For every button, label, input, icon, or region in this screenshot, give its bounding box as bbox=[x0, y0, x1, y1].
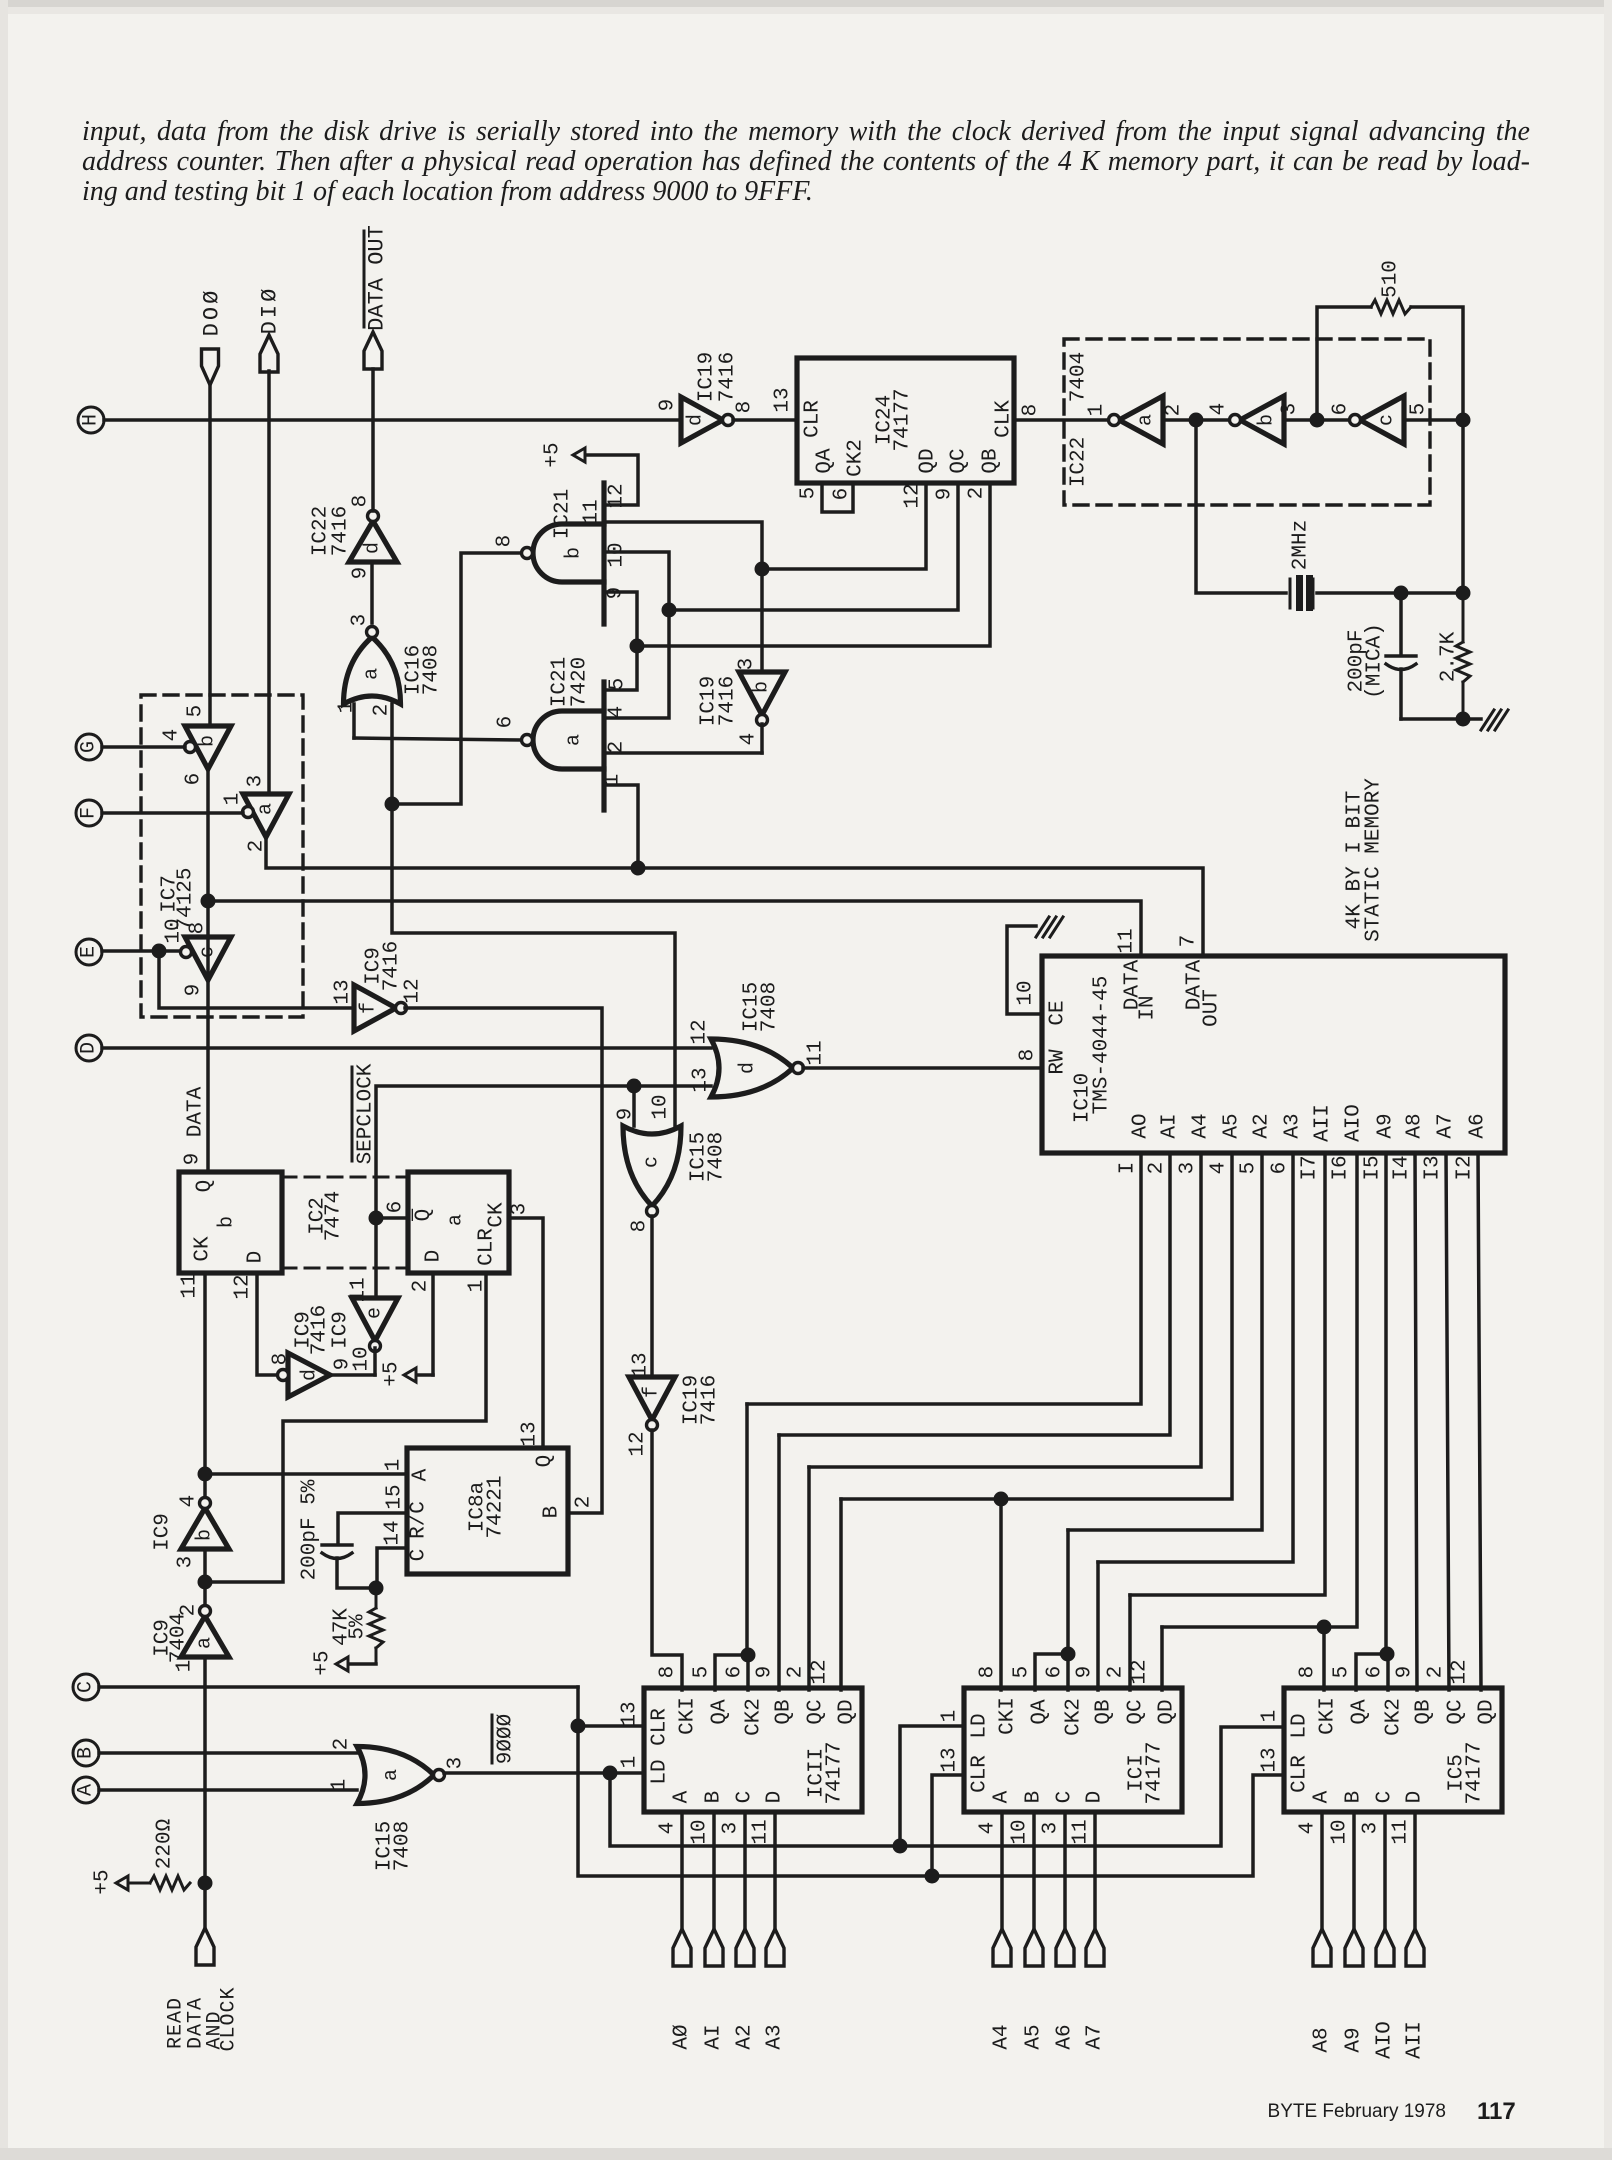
svg-text:D: D bbox=[78, 1042, 101, 1054]
wire to IC1 CK1 bbox=[999, 1499, 1003, 1690]
svg-text:9: 9 bbox=[1074, 1666, 1097, 1679]
svg-text:C: C bbox=[734, 1791, 757, 1804]
wire IC19f.12 to IC11.CK1 bbox=[652, 1430, 682, 1690]
gate IC21b 7420 bbox=[533, 524, 604, 582]
svg-text:3: 3 bbox=[1040, 1822, 1063, 1835]
svg-text:a: a bbox=[380, 1769, 403, 1781]
svg-text:IN: IN bbox=[1137, 995, 1160, 1020]
svg-text:AII: AII bbox=[1312, 1104, 1335, 1142]
svg-text:QB: QB bbox=[980, 448, 1003, 473]
svg-text:RW: RW bbox=[1047, 1049, 1070, 1075]
svg-text:A: A bbox=[1311, 1790, 1334, 1803]
enable bubble IC7b bbox=[185, 742, 196, 753]
strap IC5 QA-CK2 bbox=[1356, 1654, 1388, 1690]
svg-text:13: 13 bbox=[619, 1701, 642, 1726]
svg-text:IC9: IC9 bbox=[330, 1311, 353, 1349]
wire IC22d.8 to DATA OUT bbox=[371, 369, 375, 511]
svg-text:10: 10 bbox=[606, 542, 629, 567]
wire ICI B to connector bbox=[1032, 1812, 1036, 1929]
connector READ DATA AND CLOCK bbox=[196, 1928, 214, 1965]
inverter IC19b bbox=[739, 672, 785, 715]
svg-text:3: 3 bbox=[1360, 1822, 1383, 1835]
svg-text:2: 2 bbox=[331, 1738, 354, 1751]
wire 47K to +5 bbox=[347, 1662, 376, 1666]
svg-text:11: 11 bbox=[1070, 1819, 1093, 1844]
svg-text:AØ: AØ bbox=[671, 2024, 694, 2049]
svg-text:QC: QC bbox=[805, 1699, 828, 1724]
svg-text:CK2: CK2 bbox=[743, 1698, 766, 1736]
enable bubble IC7a bbox=[243, 807, 254, 818]
wire ICII C to connector bbox=[743, 1812, 747, 1929]
bus rail 8 bbox=[1162, 1153, 1357, 1627]
wire ICI C to connector bbox=[1063, 1812, 1067, 1929]
wire IC21b.12 to +5 bbox=[585, 455, 638, 505]
svg-text:SEPCLOCK: SEPCLOCK bbox=[355, 1063, 378, 1164]
svg-text:1: 1 bbox=[619, 1756, 642, 1769]
connector address ICII B bbox=[705, 1929, 723, 1966]
svg-text:3: 3 bbox=[245, 775, 268, 788]
svg-text:2: 2 bbox=[1146, 1162, 1169, 1175]
connector E bbox=[76, 939, 102, 965]
wire IC24 CLK to IC22a bbox=[1014, 418, 1107, 422]
junction ground rail bbox=[1456, 712, 1471, 727]
svg-text:13: 13 bbox=[690, 1067, 713, 1092]
svg-text:4: 4 bbox=[178, 1495, 201, 1508]
inverter IC9b bbox=[181, 1508, 229, 1549]
+5 arrow 47K bbox=[336, 1657, 348, 1671]
buffer IC7a 74125 bbox=[243, 794, 289, 837]
svg-text:1: 1 bbox=[222, 793, 245, 806]
wire D to IC15d.12 bbox=[102, 1046, 711, 1050]
svg-text:f: f bbox=[358, 1002, 381, 1014]
svg-text:CLR: CLR bbox=[1289, 1755, 1312, 1793]
wire CK to IC8a.A bbox=[204, 1472, 407, 1476]
wire 510 to osc node C bbox=[1411, 307, 1463, 420]
svg-text:9: 9 bbox=[934, 488, 957, 501]
wire to IC2a.6 bbox=[376, 1216, 408, 1220]
connector address ICI B bbox=[1025, 1929, 1043, 1966]
svg-text:510: 510 bbox=[1380, 260, 1403, 298]
inverter IC19f bbox=[629, 1377, 675, 1420]
junction osc node A bbox=[1189, 413, 1204, 428]
wire IC5 A to connector bbox=[1320, 1812, 1324, 1929]
svg-text:C: C bbox=[1374, 1791, 1397, 1804]
riser IC1 QC bbox=[1128, 1595, 1132, 1690]
wire 200pF to ground rail bbox=[1399, 669, 1403, 719]
svg-text:IC21: IC21 bbox=[552, 489, 575, 539]
svg-text:CK2: CK2 bbox=[845, 439, 868, 477]
wire IC21b.8 to junction bbox=[392, 553, 521, 804]
wire F to IC7a enable bbox=[102, 811, 243, 815]
riser IC5 QC to A7 bbox=[1446, 1153, 1449, 1690]
svg-text:D: D bbox=[1404, 1791, 1427, 1804]
buffer IC7c 74125 bbox=[185, 937, 231, 980]
svg-text:QB: QB bbox=[1413, 1699, 1436, 1724]
svg-text:12: 12 bbox=[232, 1274, 255, 1299]
svg-text:7408: 7408 bbox=[421, 645, 444, 695]
svg-text:CKI: CKI bbox=[677, 1697, 700, 1735]
wire SEPCLOCK to IC15d.13 and IC9e.11 bbox=[376, 1086, 711, 1298]
inverter IC9f bbox=[354, 985, 396, 1031]
svg-text:8: 8 bbox=[494, 535, 517, 548]
svg-text:CLOCK: CLOCK bbox=[218, 1986, 241, 2051]
ground symbol CE bbox=[1036, 917, 1049, 937]
footer BYTE February 1978 bbox=[1200, 2101, 1446, 2123]
connector D bbox=[76, 1035, 102, 1061]
wire IC9e.10 down bbox=[373, 1348, 377, 1375]
svg-text:G: G bbox=[78, 741, 101, 753]
connector address IC5 D bbox=[1406, 1929, 1424, 1966]
bus rail 2 bbox=[779, 1153, 1170, 1435]
resistor 510 bbox=[1371, 300, 1411, 314]
svg-text:12: 12 bbox=[1129, 1659, 1152, 1684]
svg-text:AIO: AIO bbox=[1343, 1104, 1366, 1142]
junction SEPCLOCK-IC15c bbox=[627, 1079, 642, 1094]
svg-text:H: H bbox=[80, 414, 103, 426]
riser IC5 QD to A6 bbox=[1478, 1153, 1481, 1690]
svg-text:11: 11 bbox=[750, 1819, 773, 1844]
inverter IC22c bbox=[1360, 396, 1404, 444]
svg-text:QA: QA bbox=[709, 1699, 732, 1725]
strap IC1 QA-CK2 bbox=[1035, 1654, 1068, 1690]
svg-text:2: 2 bbox=[1163, 404, 1186, 417]
caption paragraph line 2 bbox=[82, 146, 1530, 178]
svg-text:I: I bbox=[1117, 1162, 1140, 1175]
svg-text:A: A bbox=[991, 1790, 1014, 1803]
svg-text:Q: Q bbox=[194, 1180, 217, 1193]
dashed link IC2 bbox=[282, 1176, 408, 1179]
svg-text:5: 5 bbox=[185, 705, 208, 718]
junction data out to IC21a.1 bbox=[631, 861, 646, 876]
svg-text:6: 6 bbox=[385, 1201, 408, 1214]
wire CLR rail to IC5.CLR bbox=[578, 1687, 1284, 1876]
svg-text:CK2: CK2 bbox=[1383, 1698, 1406, 1736]
svg-text:5: 5 bbox=[691, 1666, 714, 1679]
svg-text:A7: A7 bbox=[1435, 1113, 1458, 1138]
wire 220 to +5 bbox=[128, 1882, 150, 1885]
svg-text:3: 3 bbox=[175, 1556, 198, 1569]
svg-text:D: D bbox=[245, 1251, 268, 1264]
junction CLR IC11 bbox=[571, 1719, 586, 1734]
svg-text:7: 7 bbox=[1178, 935, 1201, 948]
svg-text:7416: 7416 bbox=[699, 1375, 722, 1425]
wire G to IC7b enable bbox=[102, 745, 185, 749]
connector address IC5 B bbox=[1345, 1929, 1363, 1966]
svg-text:Q̅: Q̅ bbox=[412, 1208, 436, 1222]
connector DATA OUT bbox=[364, 332, 382, 369]
svg-text:11: 11 bbox=[1390, 1819, 1413, 1844]
svg-text:+5: +5 bbox=[312, 1650, 335, 1675]
svg-text:B: B bbox=[541, 1506, 564, 1519]
junction QB net bbox=[630, 639, 645, 654]
junction crystal-cap bbox=[1394, 586, 1409, 601]
svg-text:A9: A9 bbox=[1375, 1113, 1398, 1138]
svg-text:9ØØØ: 9ØØØ bbox=[495, 1714, 518, 1764]
junction osc node C bbox=[1456, 413, 1471, 428]
wire IC5 C to connector bbox=[1383, 1812, 1387, 1929]
svg-text:a: a bbox=[194, 1637, 217, 1649]
svg-text:DATA: DATA bbox=[185, 1086, 208, 1137]
svg-text:1: 1 bbox=[383, 1459, 406, 1472]
wire IC16a.3 to IC22d.9 bbox=[370, 562, 374, 623]
wire to ground bbox=[1463, 717, 1481, 721]
connector DI0 bbox=[260, 335, 278, 372]
svg-text:A3: A3 bbox=[1282, 1113, 1305, 1138]
inverter IC9d bbox=[288, 1353, 330, 1397]
IC24 QA-CK2 strap bbox=[822, 483, 853, 512]
svg-text:b: b bbox=[1256, 414, 1279, 426]
svg-text:A4: A4 bbox=[1190, 1113, 1213, 1138]
svg-text:74177: 74177 bbox=[1464, 1741, 1487, 1804]
wire osc node C down bbox=[1461, 420, 1465, 593]
wire to 200pF MICA bbox=[1399, 593, 1403, 655]
svg-text:8: 8 bbox=[270, 1353, 293, 1366]
svg-text:13: 13 bbox=[332, 979, 355, 1004]
wire IC19b.4 out bbox=[760, 724, 764, 753]
riser IC1 QA node bbox=[1066, 1530, 1070, 1654]
bus rail 6 bbox=[1098, 1153, 1293, 1562]
strap IC11 QA-CK2 bbox=[715, 1655, 748, 1690]
connector address ICII A bbox=[673, 1929, 691, 1966]
svg-text:QC: QC bbox=[948, 448, 971, 473]
gate IC21a 7420 bbox=[533, 711, 604, 769]
svg-text:A6: A6 bbox=[1467, 1113, 1490, 1138]
svg-text:10: 10 bbox=[1015, 980, 1038, 1005]
svg-text:6: 6 bbox=[1269, 1162, 1292, 1175]
svg-text:3: 3 bbox=[349, 614, 372, 627]
svg-text:CK2: CK2 bbox=[1063, 1698, 1086, 1736]
svg-text:7416: 7416 bbox=[330, 506, 353, 556]
ground symbol oscillator bbox=[1481, 710, 1494, 730]
svg-text:A4: A4 bbox=[991, 2024, 1014, 2049]
svg-text:b: b bbox=[216, 1216, 239, 1228]
svg-text:CLR: CLR bbox=[969, 1755, 992, 1793]
resistor 47K 5% bbox=[375, 1588, 378, 1608]
svg-text:A: A bbox=[75, 1784, 98, 1796]
svg-text:QC: QC bbox=[1445, 1699, 1468, 1724]
riser IC5 QA node to A9 bbox=[1384, 1153, 1388, 1654]
svg-text:C: C bbox=[1054, 1791, 1077, 1804]
svg-text:AI: AI bbox=[703, 2024, 726, 2049]
svg-text:DOØ: DOØ bbox=[200, 288, 225, 337]
gate IC15d 7408 bbox=[711, 1039, 793, 1097]
memory IC10 TMS-4044-45 bbox=[1042, 956, 1505, 1153]
svg-text:8: 8 bbox=[1020, 404, 1043, 417]
svg-text:11: 11 bbox=[805, 1040, 828, 1065]
svg-text:B: B bbox=[1023, 1791, 1046, 1804]
svg-text:14: 14 bbox=[382, 1520, 405, 1545]
wire IC5 B to connector bbox=[1352, 1812, 1356, 1929]
wire LD to IC1 bbox=[900, 1726, 964, 1846]
svg-text:3: 3 bbox=[1177, 1162, 1200, 1175]
wire IC22c out bbox=[1404, 418, 1463, 422]
svg-text:a: a bbox=[255, 803, 278, 815]
wire IC2b.11 down bbox=[203, 1273, 207, 1498]
input bar IC21b bbox=[601, 483, 606, 624]
wire CLR to IC11 bbox=[578, 1724, 644, 1728]
connector address ICII C bbox=[736, 1929, 754, 1966]
svg-text:9: 9 bbox=[350, 567, 373, 580]
svg-text:+5: +5 bbox=[92, 1869, 115, 1894]
svg-text:6: 6 bbox=[1364, 1666, 1387, 1679]
counter IC5 74177 bbox=[1284, 1688, 1502, 1812]
svg-text:IC19: IC19 bbox=[696, 352, 719, 402]
right scan edge band bbox=[1604, 0, 1612, 2160]
wire IC10 CE to ground bbox=[1007, 926, 1042, 1014]
bus rail 3 bbox=[809, 1153, 1201, 1467]
svg-text:D: D bbox=[1084, 1791, 1107, 1804]
svg-text:DIØ: DIØ bbox=[258, 286, 283, 335]
svg-text:6: 6 bbox=[1044, 1666, 1067, 1679]
junction SEPCLOCK-IC2a.6 bbox=[369, 1211, 384, 1226]
wire IC16a.2 to IC15c.10 bbox=[392, 704, 675, 1126]
svg-text:QA: QA bbox=[814, 448, 837, 474]
riser IC11 QD bbox=[839, 1499, 843, 1690]
svg-text:CK: CK bbox=[192, 1236, 215, 1262]
svg-text:I3: I3 bbox=[1422, 1155, 1445, 1180]
svg-text:QD: QD bbox=[917, 448, 940, 473]
svg-text:1: 1 bbox=[1086, 404, 1109, 417]
wire ICII B to connector bbox=[712, 1812, 716, 1929]
svg-text:LD: LD bbox=[969, 1713, 992, 1738]
svg-text:7420: 7420 bbox=[569, 657, 592, 707]
svg-text:QA: QA bbox=[1349, 1699, 1372, 1725]
gate IC15a 7408 bbox=[357, 1747, 434, 1804]
dashed box IC7 74125 bbox=[141, 695, 303, 1017]
wire IC16a.1 stub bbox=[352, 704, 356, 738]
wire ICII A to connector bbox=[680, 1812, 684, 1929]
svg-text:QC: QC bbox=[1125, 1699, 1148, 1724]
svg-text:C: C bbox=[75, 1681, 98, 1693]
junction LD rail IC1 bbox=[893, 1839, 908, 1854]
svg-text:2: 2 bbox=[966, 487, 989, 500]
svg-text:7408: 7408 bbox=[759, 982, 782, 1032]
svg-text:a: a bbox=[445, 1214, 468, 1226]
svg-text:5: 5 bbox=[1331, 1666, 1354, 1679]
overline of DATA OUT bbox=[363, 231, 366, 327]
svg-text:2: 2 bbox=[785, 1666, 808, 1679]
flip-flop IC2a 7474 bbox=[408, 1172, 509, 1273]
junction IC11 QA-CK2 bbox=[741, 1648, 756, 1663]
connector address ICI A bbox=[993, 1929, 1011, 1966]
connector A bbox=[73, 1777, 99, 1803]
top scan edge band bbox=[0, 0, 1612, 7]
svg-text:12: 12 bbox=[689, 1019, 712, 1044]
svg-text:11: 11 bbox=[1116, 928, 1139, 953]
svg-text:3: 3 bbox=[445, 1757, 468, 1770]
inverter IC19d bbox=[681, 397, 723, 443]
junction DATA node bbox=[201, 894, 216, 909]
connector F bbox=[76, 800, 102, 826]
svg-text:B: B bbox=[1343, 1791, 1366, 1804]
one-shot IC8a 74221 bbox=[407, 1448, 568, 1574]
svg-text:9: 9 bbox=[615, 1108, 638, 1121]
svg-text:13: 13 bbox=[1259, 1747, 1282, 1772]
riser IC5 QB to A8 bbox=[1415, 1153, 1417, 1690]
wire IC2a.1 CLR loop bbox=[208, 1273, 486, 1582]
flip-flop IC2b 7474 bbox=[179, 1172, 282, 1273]
svg-text:CLK: CLK bbox=[993, 400, 1016, 438]
svg-text:10: 10 bbox=[689, 1819, 712, 1844]
+5 arrow 220 bbox=[116, 1876, 128, 1890]
svg-text:a: a bbox=[361, 668, 384, 680]
wire IC21b.10 to IC21a.4 bbox=[604, 552, 669, 718]
svg-text:A2: A2 bbox=[734, 2024, 757, 2049]
svg-text:10: 10 bbox=[650, 1094, 673, 1119]
svg-text:2: 2 bbox=[1105, 1666, 1128, 1679]
svg-text:10: 10 bbox=[1009, 1819, 1032, 1844]
junction IC1 CK1 feed bbox=[994, 1492, 1009, 1507]
junction crystal-2.7K bbox=[1456, 586, 1471, 601]
svg-text:AII: AII bbox=[1404, 2021, 1427, 2059]
bottom scan edge band bbox=[0, 2148, 1612, 2160]
svg-text:A2: A2 bbox=[1251, 1113, 1274, 1138]
wire IC9f.12 to IC8a.B bbox=[405, 1008, 602, 1513]
svg-text:d: d bbox=[299, 1369, 322, 1381]
buffer IC7b 74125 bbox=[185, 726, 231, 769]
svg-text:11: 11 bbox=[348, 1277, 371, 1302]
svg-text:Q: Q bbox=[534, 1455, 557, 1468]
svg-text:+5: +5 bbox=[542, 442, 565, 467]
wire to IC5 CK1 bbox=[1322, 1627, 1326, 1690]
wire IC22a to IC22b bbox=[1163, 418, 1228, 422]
svg-text:A6: A6 bbox=[1054, 2024, 1077, 2049]
svg-text:2: 2 bbox=[371, 704, 394, 717]
svg-text:4: 4 bbox=[1297, 1822, 1320, 1835]
connector H bbox=[78, 407, 104, 433]
wire ground rail bbox=[1401, 717, 1463, 721]
svg-text:b: b bbox=[194, 1529, 217, 1541]
svg-text:A: A bbox=[671, 1790, 694, 1803]
svg-text:5: 5 bbox=[1011, 1666, 1034, 1679]
gate IC16a 7408 bbox=[344, 637, 401, 704]
svg-text:4: 4 bbox=[1208, 403, 1231, 416]
svg-text:I2: I2 bbox=[1454, 1155, 1477, 1180]
svg-text:R/C: R/C bbox=[408, 1501, 431, 1539]
svg-text:AO: AO bbox=[1130, 1113, 1153, 1138]
svg-text:DATA OUT: DATA OUT bbox=[365, 225, 390, 331]
wire ICII D to connector bbox=[773, 1812, 777, 1929]
svg-text:6: 6 bbox=[495, 716, 518, 729]
connector B bbox=[73, 1740, 99, 1766]
svg-text:200pF 5%: 200pF 5% bbox=[299, 1479, 322, 1580]
svg-text:9: 9 bbox=[183, 984, 206, 997]
bus rail 1 bbox=[747, 1153, 1141, 1404]
junction osc node B bbox=[1310, 413, 1325, 428]
svg-text:b: b bbox=[751, 681, 774, 693]
svg-text:5: 5 bbox=[1238, 1162, 1261, 1175]
svg-text:8: 8 bbox=[629, 1220, 652, 1233]
svg-text:QB: QB bbox=[773, 1699, 796, 1724]
svg-text:a: a bbox=[1135, 414, 1158, 426]
svg-text:5: 5 bbox=[798, 487, 821, 500]
svg-text:13: 13 bbox=[630, 1352, 653, 1377]
bubble IC9d.8 bbox=[278, 1370, 289, 1381]
svg-text:E: E bbox=[78, 946, 101, 958]
wire E to IC7c enable bbox=[159, 949, 180, 953]
counter IC24 74177 bbox=[797, 358, 1014, 483]
svg-text:A7: A7 bbox=[1084, 2024, 1107, 2049]
resistor 2.7K bbox=[1462, 593, 1465, 642]
wire E line bbox=[102, 949, 155, 953]
svg-text:D: D bbox=[764, 1791, 787, 1804]
svg-text:d: d bbox=[736, 1062, 759, 1074]
wire IC22b to IC22c bbox=[1284, 418, 1348, 422]
svg-text:D: D bbox=[423, 1250, 446, 1263]
junction CK-IC8a.A bbox=[198, 1467, 213, 1482]
svg-text:QD: QD bbox=[1476, 1699, 1499, 1724]
junction E node bbox=[152, 944, 167, 959]
